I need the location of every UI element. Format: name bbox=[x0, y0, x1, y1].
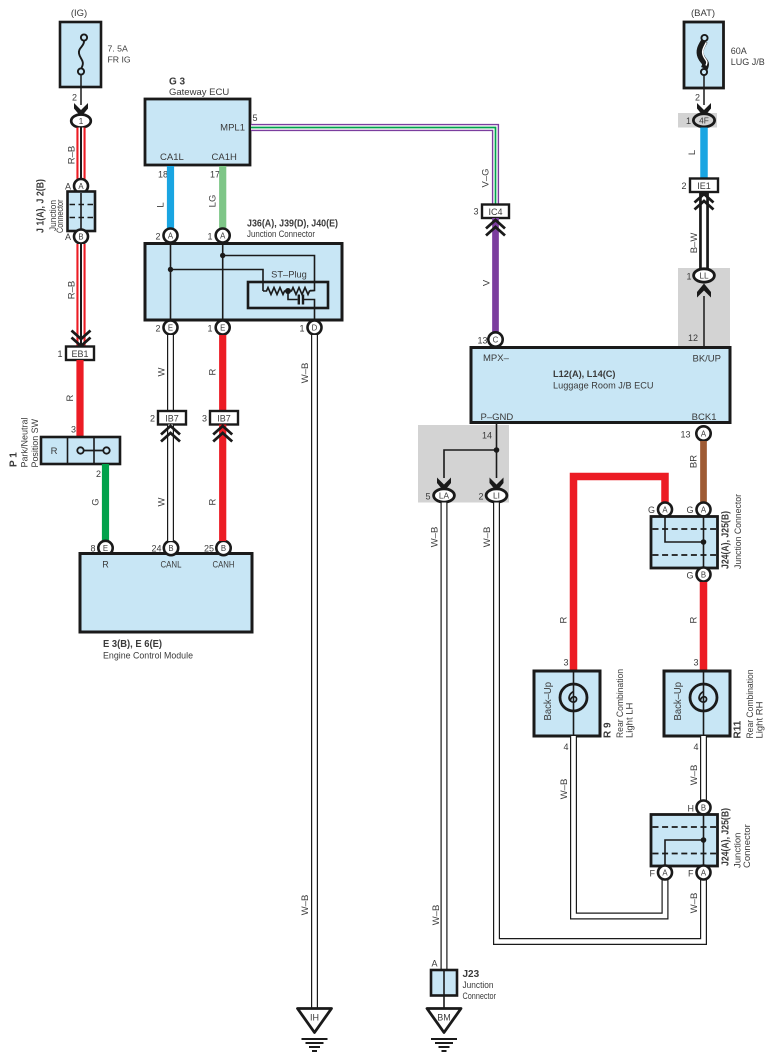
svg-text:2: 2 bbox=[150, 414, 155, 424]
wire R CANH lower segment bbox=[219, 425, 226, 542]
svg-text:L: L bbox=[156, 202, 167, 207]
wire W-B from LI to lower junction connector bbox=[497, 503, 704, 942]
wire V violet bbox=[492, 218, 499, 332]
double chevron into EB1 bbox=[72, 331, 91, 347]
svg-text:R–B: R–B bbox=[67, 281, 78, 299]
svg-text:A: A bbox=[701, 869, 707, 878]
svg-text:J23: J23 bbox=[463, 969, 480, 980]
svg-text:R: R bbox=[559, 616, 570, 623]
svg-text:5: 5 bbox=[253, 113, 258, 123]
svg-text:60A: 60A bbox=[731, 46, 747, 56]
wire BR brown bbox=[700, 441, 707, 502]
shield gray patch at LL bbox=[678, 268, 730, 347]
connector IB7 right bbox=[210, 411, 238, 425]
svg-text:1: 1 bbox=[686, 116, 691, 126]
svg-text:FR IG: FR IG bbox=[108, 55, 131, 65]
svg-text:1: 1 bbox=[207, 232, 212, 242]
svg-text:R–B: R–B bbox=[67, 146, 78, 164]
connector oval LI bbox=[486, 489, 507, 502]
svg-text:4F: 4F bbox=[699, 115, 709, 125]
svg-text:BM: BM bbox=[437, 1013, 451, 1023]
connector arrow into LA bbox=[437, 478, 451, 492]
svg-text:IC4: IC4 bbox=[488, 207, 502, 217]
svg-text:1: 1 bbox=[299, 324, 304, 334]
svg-text:25: 25 bbox=[204, 544, 214, 554]
svg-text:Junction Connector: Junction Connector bbox=[247, 229, 315, 240]
wire L blue right column bbox=[700, 128, 708, 179]
svg-text:J24(A), J25(B): J24(A), J25(B) bbox=[721, 808, 732, 866]
svg-text:C: C bbox=[493, 336, 499, 345]
connector oval LL bbox=[694, 269, 715, 282]
svg-text:(IG): (IG) bbox=[71, 8, 87, 19]
wire capacitor to pin D bbox=[304, 300, 315, 322]
wire R-B upper segment bbox=[76, 128, 85, 180]
svg-text:W: W bbox=[157, 497, 168, 506]
svg-text:G 3: G 3 bbox=[169, 77, 186, 88]
svg-text:W–B: W–B bbox=[689, 893, 700, 914]
svg-text:Connector: Connector bbox=[463, 991, 497, 1002]
bulb R9 bbox=[560, 672, 587, 735]
svg-text:(BAT): (BAT) bbox=[691, 8, 715, 19]
connector circle A lower junction right bbox=[697, 866, 711, 880]
svg-text:MPL1: MPL1 bbox=[220, 123, 245, 134]
double chevron below IE1 bbox=[695, 194, 714, 210]
svg-text:CANL: CANL bbox=[161, 560, 182, 570]
svg-text:V: V bbox=[482, 279, 493, 286]
ground BM bbox=[427, 1009, 461, 1052]
svg-text:B: B bbox=[168, 544, 173, 553]
wire R red to R11 bbox=[700, 582, 708, 671]
node inside lower junction connector bbox=[701, 837, 707, 843]
svg-text:BCK1: BCK1 bbox=[692, 412, 717, 423]
svg-text:3: 3 bbox=[563, 658, 568, 668]
connector oval 4F bbox=[693, 114, 714, 127]
svg-text:B: B bbox=[701, 571, 706, 580]
svg-text:24: 24 bbox=[151, 544, 161, 554]
wire G green bbox=[102, 464, 109, 541]
svg-text:5: 5 bbox=[425, 492, 430, 502]
wire B-W bbox=[699, 192, 709, 269]
luggage room J/B ECU box L12(A) L14(C) bbox=[471, 348, 730, 423]
svg-text:Luggage Room J/B ECU: Luggage Room J/B ECU bbox=[553, 381, 654, 392]
svg-text:A: A bbox=[65, 232, 71, 242]
wire W lower segment bbox=[167, 425, 174, 542]
connector EB1 bbox=[66, 347, 94, 361]
svg-text:LG: LG bbox=[208, 195, 219, 208]
wire R red bbox=[76, 360, 83, 437]
connector IB7 left bbox=[158, 411, 186, 425]
wire R CANH upper segment bbox=[219, 335, 226, 411]
svg-text:IH: IH bbox=[310, 1013, 319, 1023]
svg-text:3: 3 bbox=[693, 658, 698, 668]
connector circle E mid J36 bbox=[216, 321, 230, 335]
connector circle D J36 bbox=[308, 321, 322, 335]
wire fuse IG output bbox=[80, 75, 82, 106]
svg-text:A: A bbox=[662, 506, 668, 515]
svg-text:W–B: W–B bbox=[482, 527, 493, 548]
fusible link element symbol bbox=[700, 35, 708, 75]
svg-text:2: 2 bbox=[155, 232, 160, 242]
junction connector J24 J25 lower box bbox=[651, 815, 718, 867]
svg-text:4: 4 bbox=[563, 742, 568, 752]
svg-text:Back–Up: Back–Up bbox=[543, 682, 554, 721]
svg-text:BK/UP: BK/UP bbox=[692, 354, 721, 365]
ground IH bbox=[298, 1009, 332, 1052]
svg-text:G: G bbox=[648, 505, 655, 515]
svg-text:IB7: IB7 bbox=[217, 413, 231, 423]
node CANL branch bbox=[168, 267, 173, 272]
svg-text:13: 13 bbox=[680, 430, 690, 440]
connector circle B of J1 bbox=[74, 230, 88, 244]
svg-text:Connector: Connector bbox=[55, 200, 66, 234]
wire V-G from MPL1 to IC4 bbox=[251, 128, 496, 206]
svg-text:B: B bbox=[701, 804, 706, 813]
wire W-B from LA to J23 bbox=[441, 503, 448, 971]
connector IC4 bbox=[482, 205, 509, 219]
connector circle C MPX bbox=[488, 332, 502, 346]
svg-text:A: A bbox=[78, 182, 84, 191]
svg-text:W–B: W–B bbox=[559, 779, 570, 800]
node P-GND split bbox=[494, 447, 500, 453]
svg-text:12: 12 bbox=[688, 333, 698, 343]
wire W upper segment bbox=[167, 335, 174, 411]
svg-text:E 3(B), E 6(E): E 3(B), E 6(E) bbox=[103, 639, 162, 650]
svg-text:P 1: P 1 bbox=[9, 452, 20, 467]
svg-text:W–B: W–B bbox=[431, 905, 442, 926]
svg-text:A: A bbox=[431, 959, 437, 969]
svg-text:2: 2 bbox=[695, 93, 700, 103]
capacitor C of ST-plug bbox=[288, 291, 298, 300]
svg-text:V–G: V–G bbox=[481, 168, 492, 187]
svg-text:18: 18 bbox=[158, 170, 168, 180]
connector arrow below LL bbox=[697, 284, 711, 298]
svg-text:LA: LA bbox=[439, 491, 450, 501]
svg-text:CA1L: CA1L bbox=[160, 152, 184, 163]
connector arrow into LI bbox=[490, 478, 504, 492]
svg-text:R: R bbox=[689, 616, 700, 623]
junction connector J36 box bbox=[145, 244, 342, 321]
svg-text:Position SW: Position SW bbox=[30, 419, 41, 468]
svg-text:A: A bbox=[220, 232, 226, 241]
shield gray patch at 4F bbox=[678, 113, 717, 128]
wire R red loop from R9 to upper junction connector bbox=[574, 477, 666, 672]
double chevron below IB7 right bbox=[213, 426, 232, 442]
shield gray patch at LA/LI bbox=[418, 425, 509, 503]
svg-text:E: E bbox=[220, 324, 225, 333]
svg-text:7. 5A: 7. 5A bbox=[108, 44, 128, 54]
connector arrow into 1 bbox=[74, 103, 88, 117]
svg-text:CA1H: CA1H bbox=[212, 152, 237, 163]
connector circle B pin24 bbox=[164, 541, 178, 555]
connector circle A BCK1 bbox=[696, 426, 710, 440]
connector circle E left J36 bbox=[164, 321, 178, 335]
svg-text:A: A bbox=[701, 506, 707, 515]
svg-text:E: E bbox=[103, 544, 108, 553]
connector circle B lower junction top bbox=[697, 801, 711, 815]
connector circle A lower junction left bbox=[658, 866, 672, 880]
junction connector J23 box bbox=[431, 970, 457, 996]
svg-text:D: D bbox=[312, 324, 318, 333]
svg-text:2: 2 bbox=[72, 93, 77, 103]
connector oval LA bbox=[434, 489, 455, 502]
node CANH branch bbox=[220, 253, 225, 258]
svg-text:G: G bbox=[91, 498, 102, 505]
svg-text:R 9: R 9 bbox=[603, 722, 614, 738]
svg-text:Engine Control Module: Engine Control Module bbox=[103, 651, 193, 662]
wire W-B from pin D to ground IH bbox=[311, 335, 318, 1009]
wire CANL inside J36 bbox=[171, 244, 264, 326]
svg-text:W: W bbox=[157, 367, 168, 376]
svg-text:4: 4 bbox=[693, 742, 698, 752]
svg-text:R11: R11 bbox=[733, 720, 744, 738]
svg-text:H: H bbox=[688, 804, 695, 814]
svg-text:A: A bbox=[662, 869, 668, 878]
svg-text:2: 2 bbox=[155, 324, 160, 334]
svg-text:E: E bbox=[168, 324, 173, 333]
back-up light R9 box bbox=[534, 671, 600, 736]
svg-text:1: 1 bbox=[79, 116, 84, 126]
wire R-B lower segment bbox=[76, 244, 85, 346]
park/neutral position switch P1 box bbox=[41, 437, 120, 464]
svg-text:B: B bbox=[78, 233, 83, 242]
fuse element symbol bbox=[78, 34, 87, 74]
svg-text:W–B: W–B bbox=[300, 363, 311, 384]
connector circle A upper junction left bbox=[658, 503, 672, 517]
svg-text:G: G bbox=[686, 505, 693, 515]
svg-text:17: 17 bbox=[210, 170, 220, 180]
connector circle E pin8 ECM bbox=[98, 541, 112, 555]
svg-text:W–B: W–B bbox=[689, 765, 700, 786]
svg-text:Light RH: Light RH bbox=[755, 701, 766, 738]
svg-text:Connector: Connector bbox=[742, 824, 753, 868]
connector circle A upper junction right bbox=[697, 503, 711, 517]
ECM box E3(B) E6(E) bbox=[80, 554, 252, 633]
wires inside lower junction connector bbox=[665, 815, 704, 866]
resistor R right of ST-plug bbox=[288, 288, 315, 295]
svg-text:1: 1 bbox=[57, 349, 62, 359]
svg-text:W–B: W–B bbox=[430, 527, 441, 548]
svg-text:2: 2 bbox=[96, 469, 101, 479]
svg-text:F: F bbox=[650, 869, 656, 879]
svg-text:Light LH: Light LH bbox=[625, 702, 636, 738]
fuse 60A LUG J/B box bbox=[684, 22, 724, 88]
connector oval 1 bbox=[71, 115, 91, 128]
svg-text:A: A bbox=[65, 182, 71, 192]
connector circle B upper junction bbox=[697, 568, 711, 582]
double chevron below IB7 left bbox=[161, 426, 180, 442]
node resistor midpoint bbox=[285, 288, 291, 294]
svg-text:G: G bbox=[686, 571, 693, 581]
svg-text:Park/Neutral: Park/Neutral bbox=[20, 418, 31, 468]
svg-text:B–W: B–W bbox=[689, 233, 700, 254]
svg-text:A: A bbox=[168, 232, 174, 241]
svg-text:MPX–: MPX– bbox=[483, 353, 510, 364]
switch contacts P1 bbox=[77, 447, 109, 453]
wire P-GND branch bbox=[444, 424, 497, 478]
wire J23 to ground BM bbox=[443, 995, 445, 1009]
svg-text:J 1(A), J 2(B): J 1(A), J 2(B) bbox=[36, 179, 47, 233]
svg-text:R: R bbox=[102, 560, 109, 570]
wire fuse BAT output bbox=[703, 75, 705, 105]
svg-text:P–GND: P–GND bbox=[481, 412, 514, 423]
svg-text:Junction: Junction bbox=[463, 980, 494, 991]
connector circle A left J36 bbox=[164, 229, 178, 243]
back-up light R11 box bbox=[664, 671, 730, 736]
wires inside upper junction connector bbox=[665, 517, 704, 568]
svg-text:J24(A), J25(B): J24(A), J25(B) bbox=[721, 511, 732, 569]
connector circle A of J1 bbox=[74, 179, 88, 193]
svg-text:Junction Connector: Junction Connector bbox=[733, 494, 744, 569]
svg-text:14: 14 bbox=[482, 431, 492, 441]
double chevron below IC4 bbox=[486, 220, 505, 236]
svg-text:BR: BR bbox=[689, 455, 700, 468]
wire W-B from R11 to H pin bbox=[700, 736, 707, 801]
svg-text:W–B: W–B bbox=[300, 895, 311, 916]
resistor R left of ST-plug bbox=[263, 288, 288, 295]
svg-text:CANH: CANH bbox=[213, 560, 235, 570]
svg-text:IE1: IE1 bbox=[697, 181, 711, 191]
connector circle B pin25 bbox=[216, 541, 230, 555]
svg-text:R: R bbox=[208, 498, 219, 505]
bulb R11 bbox=[690, 672, 717, 735]
connector circle A right J36 bbox=[216, 229, 230, 243]
svg-text:Gateway ECU: Gateway ECU bbox=[169, 87, 229, 98]
svg-text:R: R bbox=[51, 446, 58, 457]
wire W-B from R9 to lower junction connector bbox=[574, 736, 666, 916]
wire LG light green bbox=[219, 166, 226, 229]
svg-text:3: 3 bbox=[473, 207, 478, 217]
svg-text:F: F bbox=[688, 869, 694, 879]
svg-text:1: 1 bbox=[207, 324, 212, 334]
gateway ECU G3 box bbox=[145, 99, 250, 165]
svg-text:ST–Plug: ST–Plug bbox=[271, 270, 307, 280]
junction connector J1(A) J2(B) box bbox=[68, 192, 96, 232]
wire CANH inside J36 bbox=[223, 244, 315, 326]
connector IE1 bbox=[690, 179, 718, 193]
node inside upper junction connector bbox=[701, 539, 707, 545]
svg-text:13: 13 bbox=[477, 336, 487, 346]
ST-Plug box bbox=[248, 282, 328, 308]
fuse 7.5A FR IG box bbox=[60, 22, 101, 87]
svg-text:R: R bbox=[65, 394, 76, 401]
wire to pin 12 bbox=[703, 296, 705, 347]
svg-text:J36(A), J39(D), J40(E): J36(A), J39(D), J40(E) bbox=[247, 219, 338, 230]
svg-text:IB7: IB7 bbox=[165, 413, 179, 423]
svg-text:2: 2 bbox=[478, 492, 483, 502]
junction connector J24 J25 upper box bbox=[651, 517, 718, 569]
svg-text:2: 2 bbox=[681, 181, 686, 191]
svg-text:EB1: EB1 bbox=[71, 349, 88, 359]
svg-text:B: B bbox=[221, 544, 226, 553]
svg-text:L: L bbox=[687, 150, 698, 155]
svg-text:A: A bbox=[701, 430, 707, 439]
wire L blue bbox=[167, 166, 174, 229]
svg-text:3: 3 bbox=[71, 425, 76, 435]
connector arrow into 4F bbox=[697, 103, 711, 117]
svg-text:LL: LL bbox=[699, 271, 709, 281]
svg-text:1: 1 bbox=[686, 272, 691, 282]
svg-text:LUG J/B: LUG J/B bbox=[731, 57, 765, 67]
svg-text:R: R bbox=[208, 368, 219, 375]
svg-text:L12(A), L14(C): L12(A), L14(C) bbox=[553, 369, 616, 380]
svg-text:3: 3 bbox=[202, 414, 207, 424]
svg-text:Back–Up: Back–Up bbox=[673, 682, 684, 721]
svg-text:LI: LI bbox=[493, 491, 500, 501]
